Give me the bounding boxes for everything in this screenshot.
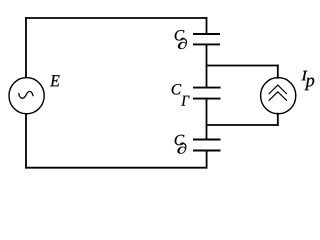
current source Ip circle [261,78,296,114]
capacitor C_d top, plate 2 [193,43,220,45]
label E [50,75,60,86]
wire left lower (source E down to bottom-left corner) [25,114,27,168]
current source Ip chevron lower [269,92,287,101]
capacitor C_d bottom, plate 2 [193,150,221,152]
label subscript p (current source) [305,78,315,91]
wire bottom-right vertical (capacitor C_d bottom to bottom wire) [206,151,208,168]
label subscript Γ (middle capacitor) [181,96,189,106]
wire top (left corner to capacitor chain) [26,17,207,19]
source E sine symbol [19,91,33,98]
wire branch lower node to current source Ip [207,124,278,126]
wire left upper (top-left corner down to source E) [25,18,27,77]
current source Ip chevron upper [269,85,287,94]
wire bottom (bottom-left corner to capacitor chain) [26,167,207,169]
capacitor C_d top, plate 1 [193,33,220,35]
wire between capacitor C_d top and capacitor C_G [206,44,208,87]
wire branch upper node to current source Ip [207,65,278,67]
wire top-right vertical (into capacitor C_d top) [206,18,208,33]
label I (current source) [301,71,307,81]
label subscript ∂ (bottom capacitor) [177,143,186,154]
wire current source Ip top lead [277,66,279,78]
label C (top capacitor) [175,30,185,40]
label subscript ∂ (top capacitor) [178,38,187,49]
capacitor C_G plate 2 [193,98,221,100]
source E circle [9,78,44,114]
capacitor C_G plate 1 [193,87,221,89]
label C (bottom capacitor) [175,135,185,145]
wire current source Ip bottom lead [277,114,279,125]
capacitor C_d bottom, plate 1 [193,139,221,141]
wire between capacitor C_G and capacitor C_d bottom [206,99,208,140]
label C (middle capacitor) [172,84,182,94]
